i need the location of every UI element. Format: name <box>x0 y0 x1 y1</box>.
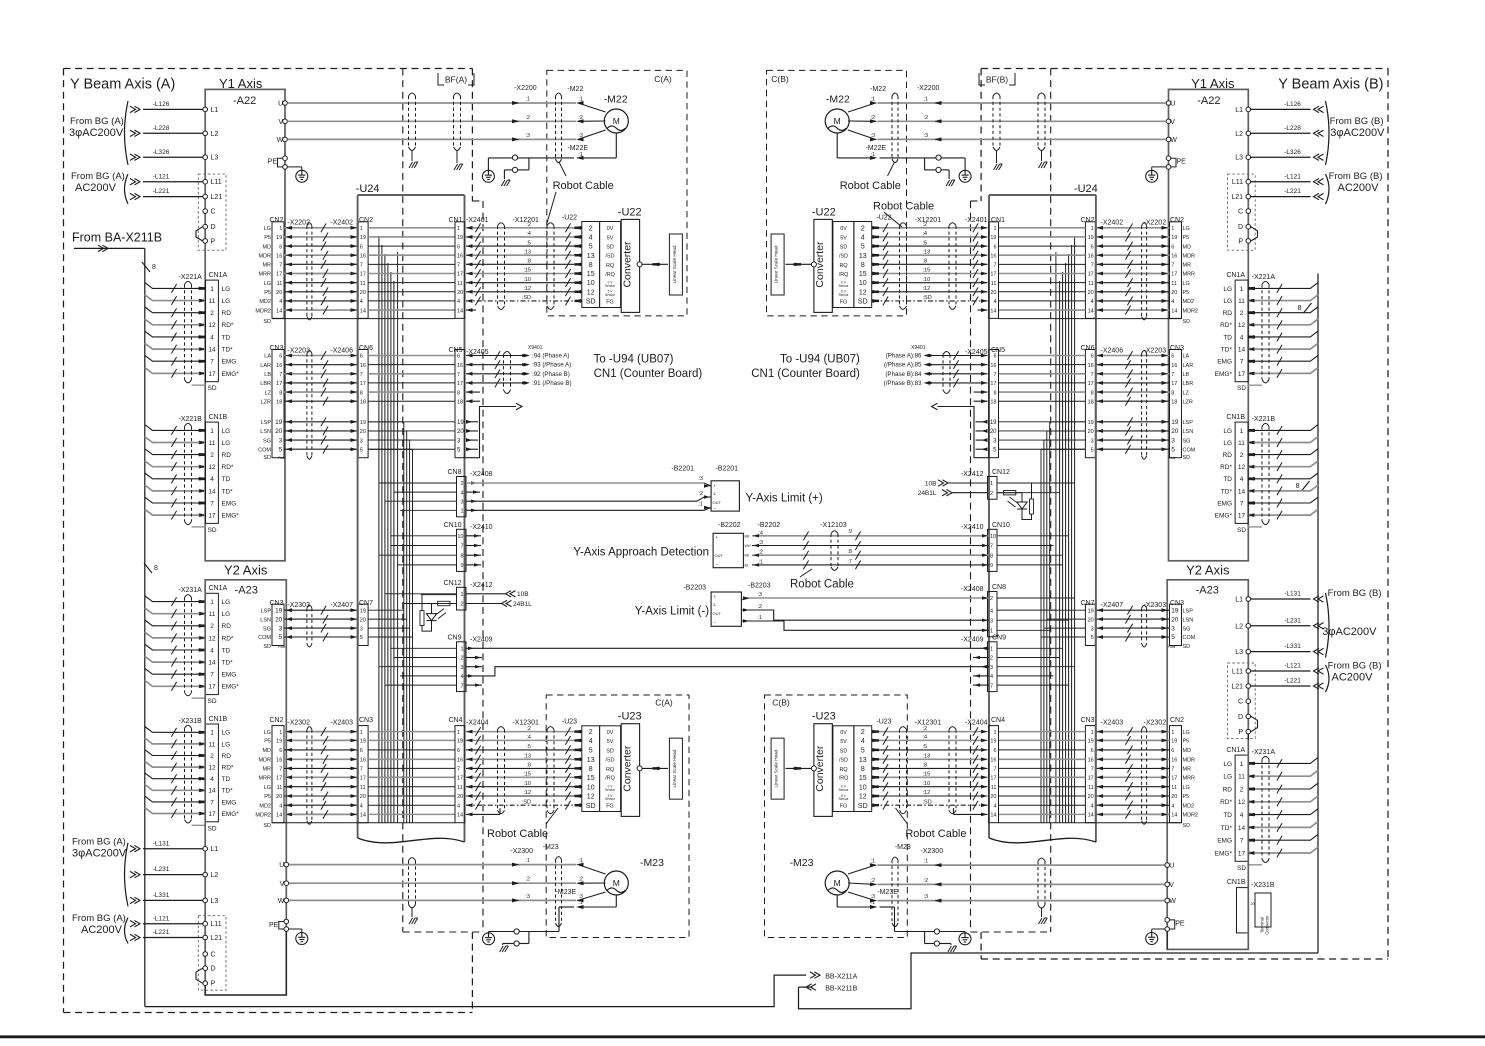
svg-text:5: 5 <box>861 748 865 755</box>
svg-text::2: :2 <box>924 878 929 884</box>
svg-text:MDR: MDR <box>1183 253 1196 259</box>
svg-text:7: 7 <box>1171 372 1174 378</box>
svg-text:-B2201: -B2201 <box>716 466 739 473</box>
svg-text:12: 12 <box>208 322 216 329</box>
svg-text:11: 11 <box>1238 440 1245 447</box>
svg-text:SD: SD <box>1237 385 1246 392</box>
svg-text:1: 1 <box>360 226 363 232</box>
motor -M23 ground lead -M23E <box>483 889 617 952</box>
label Robot Cable (upper) <box>840 162 934 227</box>
note To -U94 (UB07) CN1 (Counter Board) <box>594 354 703 380</box>
svg-text:L3: L3 <box>211 155 219 162</box>
svg-text:14: 14 <box>208 788 216 795</box>
svg-text:19: 19 <box>360 420 366 426</box>
svg-text:AC200V: AC200V <box>1338 182 1380 194</box>
svg-text:17: 17 <box>208 371 216 378</box>
svg-text:5: 5 <box>861 244 865 251</box>
svg-text:5: 5 <box>279 446 283 453</box>
wires CN3 - -X2303 - -X2407 - CN7 (Y2 axis) <box>1080 600 1195 650</box>
svg-text:16: 16 <box>457 758 463 764</box>
svg-text:-X2407: -X2407 <box>330 602 353 609</box>
svg-text:2: 2 <box>460 602 463 608</box>
svg-text::1: :1 <box>757 615 762 621</box>
svg-text:-X2401: -X2401 <box>965 217 988 224</box>
svg-text:/RQ: /RQ <box>605 776 615 782</box>
svg-text:4: 4 <box>861 235 865 242</box>
svg-text::2: :2 <box>526 726 531 732</box>
svg-text:LG: LG <box>1223 298 1232 305</box>
svg-text::2: :2 <box>871 115 876 121</box>
svg-text:SD: SD <box>263 644 271 650</box>
svg-text:5: 5 <box>1171 446 1175 453</box>
svg-text:CN9: CN9 <box>992 634 1006 641</box>
svg-text:2: 2 <box>210 623 214 630</box>
svg-text:-X221A: -X221A <box>179 274 203 281</box>
motor -M22 ground lead -M22E <box>837 133 971 186</box>
bus size marker 8 (upper) <box>142 262 156 272</box>
label Robot Cable (lower) <box>487 808 558 840</box>
svg-text::2: :2 <box>758 550 763 556</box>
svg-text:CN1 (Counter Board): CN1 (Counter Board) <box>751 368 860 380</box>
svg-text:17: 17 <box>1088 381 1094 387</box>
svg-text:-U23: -U23 <box>562 719 577 726</box>
svg-text:P: P <box>211 238 216 245</box>
svg-text:11: 11 <box>1088 281 1094 287</box>
wires U V W from -A23 to motor -M23 <box>289 865 576 901</box>
svg-text:-M23: -M23 <box>895 844 911 851</box>
svg-text:17: 17 <box>360 776 366 782</box>
terminals U V W of -A22 <box>1166 101 1177 144</box>
svg-text:15: 15 <box>587 271 595 278</box>
svg-text:19: 19 <box>275 607 283 614</box>
svg-text:8: 8 <box>360 390 363 396</box>
svg-text:24B1L: 24B1L <box>513 601 532 608</box>
svg-text:P: P <box>1238 238 1243 245</box>
svg-text:V: V <box>280 881 285 888</box>
svg-text:-U22: -U22 <box>876 215 891 222</box>
wires CN1 - -X2401 - -X12201 to converter -U22 <box>466 217 582 312</box>
svg-text:18: 18 <box>1088 399 1094 405</box>
svg-text:20: 20 <box>1088 290 1094 296</box>
svg-text::12: :12 <box>923 790 931 796</box>
svg-text:17: 17 <box>1171 776 1177 782</box>
svg-text:Plate: Plate <box>278 456 286 460</box>
svg-text::1: :1 <box>871 900 876 906</box>
svg-text::13: :13 <box>523 249 531 255</box>
svg-text:MD: MD <box>262 748 271 754</box>
svg-text:SD: SD <box>858 803 868 810</box>
svg-text:W: W <box>277 137 284 144</box>
svg-text:CN3: CN3 <box>359 717 373 724</box>
outer dashed enclosure Y Beam Axis (A) <box>64 69 473 1013</box>
svg-text:14: 14 <box>208 488 216 495</box>
svg-text:-X2302: -X2302 <box>287 720 310 727</box>
svg-text:-X2408: -X2408 <box>961 586 984 593</box>
svg-text::13: :13 <box>923 249 931 255</box>
svg-text:LA: LA <box>264 354 271 360</box>
node 8-wire bus from BA-X211B <box>72 231 162 1007</box>
svg-text::15: :15 <box>923 772 931 778</box>
svg-text:2: 2 <box>990 656 993 662</box>
svg-text:-L221: -L221 <box>153 188 170 195</box>
svg-text:LG: LG <box>1223 761 1232 768</box>
svg-text:LG: LG <box>264 281 271 287</box>
svg-text:-X2404: -X2404 <box>965 720 988 727</box>
proximity sensor -B2202 Y-Axis Approach Detection <box>573 522 989 570</box>
svg-text:1: 1 <box>210 730 214 737</box>
wires CN3 - -X2203 - -X2406 - CN6 <box>258 345 373 461</box>
svg-text:LSP: LSP <box>1183 608 1194 614</box>
svg-text:7: 7 <box>460 683 463 689</box>
svg-text:3: 3 <box>1091 438 1094 444</box>
svg-text:LA: LA <box>1183 354 1190 360</box>
svg-text:-L326: -L326 <box>1284 149 1301 156</box>
feed wires -L131 -L231 -L331 from BG to -A23 <box>1251 588 1382 658</box>
svg-text:L21: L21 <box>1231 684 1243 691</box>
converter -U23 with linear scale head <box>562 711 683 817</box>
svg-text:V: V <box>279 119 284 126</box>
svg-text:MDR: MDR <box>1183 758 1196 764</box>
svg-text:1: 1 <box>990 481 993 487</box>
svg-text:20: 20 <box>990 290 996 296</box>
terminals L11 L21 C D P of -A22 with dashed box <box>1228 174 1256 250</box>
svg-text:6: 6 <box>1171 244 1174 250</box>
svg-text:-X12301: -X12301 <box>915 720 942 727</box>
svg-text:4: 4 <box>993 299 996 305</box>
svg-text:MD: MD <box>262 244 271 250</box>
svg-text:3: 3 <box>279 437 283 444</box>
svg-text:20: 20 <box>1088 429 1094 435</box>
svg-text:-X2408: -X2408 <box>470 471 493 478</box>
motor connector -M22 pins :1 :2 :3 <box>870 86 886 141</box>
svg-text::15: :15 <box>523 772 531 778</box>
svg-text:V: V <box>1169 882 1174 889</box>
svg-text:4: 4 <box>1091 803 1094 809</box>
svg-text::9: :9 <box>847 529 852 535</box>
svg-text:11: 11 <box>1171 281 1177 287</box>
svg-text:14: 14 <box>457 813 463 819</box>
svg-text:FG: FG <box>606 804 614 810</box>
svg-text:LZ: LZ <box>1183 390 1190 396</box>
svg-text:CN2: CN2 <box>1080 217 1094 224</box>
svg-text:7: 7 <box>993 767 996 773</box>
svg-text:-A23: -A23 <box>235 585 258 597</box>
svg-text:-L231: -L231 <box>153 866 170 873</box>
svg-text:MRR: MRR <box>1183 776 1196 782</box>
wire BB-X211A return (A-side bus to base) <box>145 972 858 1007</box>
svg-text:7: 7 <box>360 372 363 378</box>
svg-text:20: 20 <box>990 429 997 435</box>
svg-text:-M23: -M23 <box>640 857 664 869</box>
svg-text:C: C <box>211 209 216 216</box>
svg-text:13: 13 <box>859 253 867 260</box>
svg-text:19: 19 <box>1171 419 1179 426</box>
svg-text:-X2402: -X2402 <box>330 220 353 227</box>
svg-text:CN2: CN2 <box>359 217 373 224</box>
connector CN1 of -U24 <box>989 217 1005 318</box>
svg-text:7: 7 <box>457 263 460 269</box>
svg-text:7: 7 <box>1171 767 1174 773</box>
svg-text:SD: SD <box>606 748 614 754</box>
svg-text:/SD: /SD <box>606 254 615 260</box>
svg-text::13: :13 <box>923 754 931 760</box>
svg-text::93 (/Phase A): :93 (/Phase A) <box>532 362 571 369</box>
svg-text:RD: RD <box>1223 452 1233 459</box>
svg-text:3φAC200V: 3φAC200V <box>72 848 127 860</box>
svg-text:SD: SD <box>1183 823 1191 829</box>
svg-text:7: 7 <box>1171 263 1174 269</box>
svg-text::3: :3 <box>924 133 929 139</box>
svg-text:-L126: -L126 <box>153 101 170 108</box>
feed bracket BG top <box>1326 101 1386 165</box>
svg-text:L1: L1 <box>1235 597 1243 604</box>
svg-text:17: 17 <box>990 272 996 278</box>
connector -X2200 pins :1 :2 :3 <box>512 85 537 141</box>
svg-text:CN5: CN5 <box>448 347 462 354</box>
svg-text:W: W <box>1170 137 1177 144</box>
internal wiring of -U24 to edge connectors <box>997 483 1075 685</box>
svg-text::1: :1 <box>924 859 929 865</box>
svg-text:2: 2 <box>1240 452 1244 459</box>
svg-text:20: 20 <box>990 794 996 800</box>
svg-text:C(B): C(B) <box>772 698 790 708</box>
svg-text:Linear Scale Head: Linear Scale Head <box>774 245 779 283</box>
svg-text:LSN: LSN <box>1183 617 1194 623</box>
svg-text:M: M <box>834 878 841 888</box>
svg-text:13: 13 <box>859 757 867 764</box>
terminals L1 L2 L3 of -A23 <box>1235 597 1250 657</box>
bus size marker 8 (lower) <box>144 563 158 573</box>
svg-text:8: 8 <box>1171 390 1174 396</box>
svg-text::10: :10 <box>523 781 531 787</box>
cable shield on UVW run (mid) <box>454 93 463 170</box>
svg-text:MR: MR <box>1183 767 1192 773</box>
svg-text::1: :1 <box>758 559 763 565</box>
svg-text:7: 7 <box>457 372 460 378</box>
svg-text:13: 13 <box>587 253 595 260</box>
svg-text:20: 20 <box>1088 794 1094 800</box>
svg-text:-X2203: -X2203 <box>1144 348 1167 355</box>
svg-text::SD: :SD <box>522 799 531 805</box>
svg-text:4: 4 <box>360 803 363 809</box>
terminal PE of -A22 with earth <box>268 156 308 182</box>
svg-text:L1: L1 <box>211 846 219 853</box>
svg-text:17: 17 <box>208 684 216 691</box>
svg-text:X9401: X9401 <box>528 345 543 351</box>
svg-text:PE: PE <box>268 159 278 166</box>
svg-text:4: 4 <box>460 674 463 680</box>
svg-text:/RQ: /RQ <box>839 776 849 782</box>
svg-text:1: 1 <box>460 647 463 653</box>
svg-text:17: 17 <box>1238 850 1246 857</box>
svg-text:CN2: CN2 <box>1170 717 1184 724</box>
svg-text:-M22: -M22 <box>826 94 850 106</box>
wires CN5 - -X2405 to counter board X9401 <box>465 345 572 458</box>
bus size marker 8 (lower) <box>1296 481 1310 491</box>
svg-text:16: 16 <box>1088 758 1094 764</box>
svg-text:20: 20 <box>1171 290 1177 296</box>
svg-text:8: 8 <box>1296 483 1300 490</box>
svg-text:/RQ: /RQ <box>605 272 615 278</box>
svg-text:6: 6 <box>279 244 282 250</box>
svg-text:RQ: RQ <box>606 767 614 773</box>
svg-text:D: D <box>211 224 216 231</box>
svg-text:+: + <box>716 535 719 540</box>
connector CN1B with fan wires -X221B <box>1215 414 1318 534</box>
svg-text:-L331: -L331 <box>153 892 170 899</box>
svg-text:9: 9 <box>990 563 993 569</box>
svg-text:(Phase B):84: (Phase B):84 <box>885 371 922 378</box>
svg-text:-X231B: -X231B <box>179 718 203 725</box>
terminals L11 L21 C D P of -A23 with dashed box <box>1228 663 1258 739</box>
svg-text:10: 10 <box>990 534 996 540</box>
converter -U22 with linear scale head <box>771 207 892 313</box>
svg-text:CN12: CN12 <box>992 469 1010 476</box>
svg-text:17: 17 <box>276 272 282 278</box>
motor -M23 ground lead -M23E <box>837 889 971 952</box>
svg-text:RD: RD <box>222 753 232 760</box>
svg-text:-A23: -A23 <box>1196 585 1219 597</box>
svg-text:D: D <box>1238 224 1243 231</box>
svg-text:LBR: LBR <box>260 381 271 387</box>
svg-text:-L228: -L228 <box>153 125 170 132</box>
svg-text:-U22: -U22 <box>812 207 836 219</box>
terminals U V W of -A23 <box>278 862 289 905</box>
svg-text:1: 1 <box>457 730 460 736</box>
svg-text::2: :2 <box>871 878 876 884</box>
svg-text:19: 19 <box>275 419 283 426</box>
svg-text:2: 2 <box>589 225 593 232</box>
svg-text:4: 4 <box>861 738 865 745</box>
svg-text:P5: P5 <box>1183 739 1190 745</box>
svg-text:L21: L21 <box>211 935 223 942</box>
svg-text:-X2406: -X2406 <box>330 348 353 355</box>
svg-text:20: 20 <box>457 290 463 296</box>
svg-text:-M23: -M23 <box>543 844 559 851</box>
svg-text:LSP: LSP <box>261 608 272 614</box>
svg-text:11: 11 <box>457 785 463 791</box>
svg-text:5: 5 <box>360 447 363 453</box>
svg-text:1: 1 <box>460 592 463 598</box>
svg-text:11: 11 <box>1088 785 1094 791</box>
svg-text:X9401: X9401 <box>911 345 926 351</box>
svg-text:-X2407: -X2407 <box>1101 602 1124 609</box>
svg-text:EMG: EMG <box>222 672 237 679</box>
svg-text:CN7: CN7 <box>359 600 373 607</box>
svg-text:-M22: -M22 <box>567 86 583 93</box>
svg-text:14: 14 <box>1088 813 1094 819</box>
svg-text:1: 1 <box>457 226 460 232</box>
svg-text:3: 3 <box>360 626 363 632</box>
svg-text:16: 16 <box>1088 363 1094 369</box>
svg-text:-X231A: -X231A <box>1252 749 1276 756</box>
feed wires -L121 -L221 AC200V <box>1251 171 1383 204</box>
svg-text:3: 3 <box>460 499 463 505</box>
svg-text:14: 14 <box>276 308 282 314</box>
svg-text::13: :13 <box>523 754 531 760</box>
svg-text:12: 12 <box>1238 464 1246 471</box>
svg-text:17: 17 <box>1238 371 1246 378</box>
svg-text:2: 2 <box>210 310 214 317</box>
svg-text:-X231A: -X231A <box>179 587 203 594</box>
svg-text:CN10: CN10 <box>444 522 462 529</box>
robot cable bundle to motor -M23 <box>556 857 562 927</box>
svg-text:19: 19 <box>990 235 996 241</box>
svg-text:-X2300: -X2300 <box>921 848 944 855</box>
svg-text:14: 14 <box>1171 308 1177 314</box>
svg-text:12: 12 <box>859 289 867 296</box>
svg-text::3: :3 <box>757 592 762 598</box>
svg-text:6: 6 <box>1091 244 1094 250</box>
feed wires -L131 -L231 -L331 from BG to -A23 <box>72 837 203 907</box>
jumper D-P of -A22 <box>196 227 203 241</box>
svg-text:0V: 0V <box>607 730 614 736</box>
svg-text:FG: FG <box>840 299 848 305</box>
svg-text:12: 12 <box>587 794 595 801</box>
wires CN2 - -X2302 - -X2403 - CN3 <box>255 717 373 829</box>
svg-text:20: 20 <box>457 429 464 435</box>
svg-text:SD: SD <box>840 244 848 250</box>
svg-text:MDR2: MDR2 <box>1183 308 1199 314</box>
svg-text:4: 4 <box>993 803 996 809</box>
svg-text:0V: 0V <box>840 226 847 232</box>
svg-text:LG: LG <box>222 286 231 293</box>
wires CN2 - -X2302 - -X2403 - CN3 <box>1080 717 1198 829</box>
svg-text:4: 4 <box>210 476 214 483</box>
svg-text:1: 1 <box>993 730 996 736</box>
svg-text:L11: L11 <box>211 179 222 186</box>
svg-text:20: 20 <box>457 794 463 800</box>
svg-text:2: 2 <box>1240 310 1244 317</box>
svg-text:10B: 10B <box>517 591 529 598</box>
svg-text:-U24: -U24 <box>356 183 380 195</box>
svg-text:EMG*: EMG* <box>222 513 240 520</box>
svg-text:20: 20 <box>360 429 366 435</box>
svg-text:C: C <box>1238 699 1243 706</box>
svg-text:AC200V: AC200V <box>81 924 123 936</box>
svg-text:LG: LG <box>1183 785 1190 791</box>
svg-text:-X231B: -X231B <box>1251 882 1275 889</box>
svg-text:-X12201: -X12201 <box>915 217 942 224</box>
svg-text::3: :3 <box>525 894 530 900</box>
svg-text:CN8: CN8 <box>992 584 1006 591</box>
svg-text::1: :1 <box>924 97 929 103</box>
svg-text::2: :2 <box>525 115 530 121</box>
wires CN12 10B 24B1L <box>466 591 532 608</box>
svg-text:(/Phase B):83: (/Phase B):83 <box>884 380 922 387</box>
svg-text:6: 6 <box>457 244 460 250</box>
svg-text:-L221: -L221 <box>1284 678 1301 685</box>
svg-text:-X2200: -X2200 <box>917 85 940 92</box>
terminals U V W of -A23 <box>1165 863 1176 906</box>
svg-text:Linear Scale Head: Linear Scale Head <box>672 749 677 787</box>
svg-text:10: 10 <box>587 280 595 287</box>
svg-text:-X2409: -X2409 <box>470 636 493 643</box>
svg-text:19: 19 <box>276 739 282 745</box>
svg-text:7: 7 <box>1240 838 1244 845</box>
svg-text:11: 11 <box>360 281 366 287</box>
svg-text:Sensor: Sensor <box>838 293 849 297</box>
svg-text:CN12: CN12 <box>444 580 462 587</box>
svg-text:RD: RD <box>222 310 232 317</box>
wires -B2203 to CN8(B) <box>741 592 989 632</box>
svg-text:SD: SD <box>606 244 614 250</box>
svg-text:7: 7 <box>210 799 214 806</box>
svg-text:8: 8 <box>589 262 593 269</box>
svg-text:16: 16 <box>276 253 282 259</box>
svg-text::15: :15 <box>923 268 931 274</box>
svg-text:BK: BK <box>745 554 750 558</box>
